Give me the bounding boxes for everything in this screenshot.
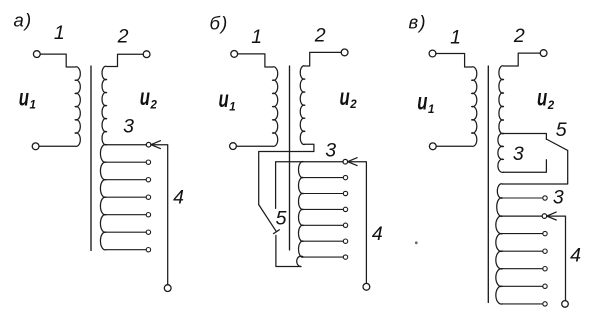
svg-text:1: 1	[54, 22, 65, 44]
svg-text:u: u	[537, 85, 547, 111]
svg-text:u: u	[417, 89, 427, 115]
svg-text:1: 1	[450, 26, 461, 48]
svg-text:4: 4	[372, 223, 383, 245]
svg-text:2: 2	[547, 100, 555, 112]
svg-text:3: 3	[123, 116, 134, 138]
svg-text:u: u	[340, 84, 350, 110]
svg-text:5: 5	[276, 207, 287, 229]
svg-text:б): б)	[210, 13, 229, 34]
svg-text:u: u	[219, 86, 229, 112]
svg-text:3: 3	[553, 186, 564, 208]
svg-text:1: 1	[30, 100, 36, 112]
svg-text:u: u	[19, 84, 29, 110]
svg-text:1: 1	[428, 104, 434, 116]
svg-text:1: 1	[251, 26, 262, 48]
svg-text:5: 5	[556, 119, 567, 141]
svg-text:2: 2	[314, 25, 326, 47]
svg-text:2: 2	[349, 99, 357, 111]
svg-text:u: u	[140, 84, 150, 110]
svg-text:4: 4	[570, 245, 581, 267]
svg-text:3: 3	[325, 140, 336, 162]
svg-text:2: 2	[117, 26, 129, 48]
svg-text:3: 3	[513, 143, 524, 165]
svg-text:в): в)	[409, 12, 427, 33]
svg-text:2: 2	[513, 25, 525, 47]
svg-text:а): а)	[14, 10, 33, 31]
svg-text:1: 1	[229, 101, 235, 113]
svg-text:2: 2	[150, 100, 158, 112]
svg-text:4: 4	[173, 187, 184, 209]
